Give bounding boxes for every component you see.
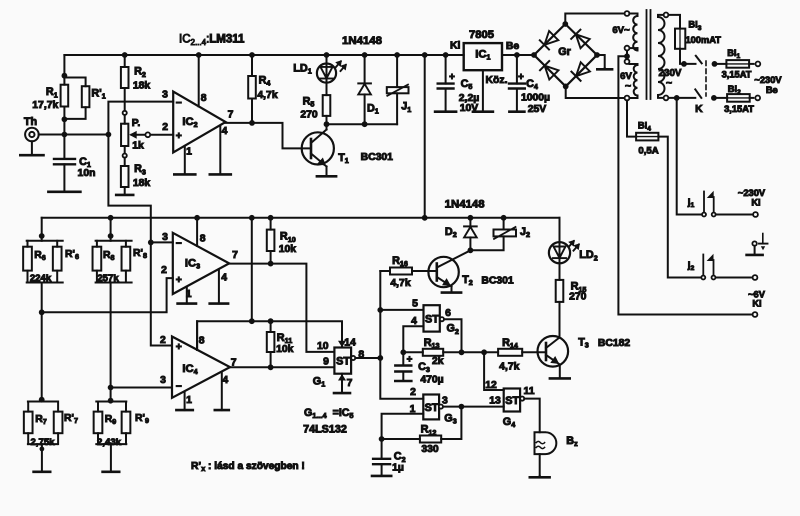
- node R1 top: [62, 73, 68, 79]
- svg-text:7: 7: [228, 110, 234, 121]
- wire R2 bottom to pot: [124, 88, 126, 111]
- wire IC2 output: [226, 123, 311, 148]
- node Th-sense: [106, 132, 112, 138]
- wire R5 node to D1 J1: [327, 123, 398, 125]
- svg-text:+: +: [407, 355, 413, 366]
- svg-text:3: 3: [162, 90, 168, 101]
- transistor T1 BC301: [302, 132, 334, 164]
- node mid rail J2: [501, 215, 507, 221]
- wire bridge top to transformer: [565, 14, 624, 25]
- svg-text:4,7k: 4,7k: [499, 362, 519, 373]
- svg-text:−: −: [176, 239, 182, 250]
- node rail-R2: [122, 52, 128, 58]
- node bridge top: [562, 21, 568, 27]
- svg-text:17,7k: 17,7k: [32, 100, 58, 111]
- wire primary bottom to K pole2: [668, 97, 695, 99]
- ground buzzer: [539, 476, 541, 477]
- ground R7: [41, 444, 43, 471]
- bridge rectifier Gr: [534, 24, 597, 86]
- svg-text:7: 7: [347, 378, 353, 389]
- node R4 output: [249, 120, 255, 126]
- resistor pair R6 R'6: [27, 240, 63, 242]
- op-amp IC4 LM311: [172, 337, 230, 398]
- node R11 bottom: [268, 364, 274, 370]
- svg-text:−: −: [176, 381, 182, 392]
- transistor T2 BC301: [428, 257, 458, 287]
- node pole2-Bi2: [711, 95, 717, 101]
- svg-text:1000µ: 1000µ: [521, 93, 550, 104]
- node R14 left: [481, 349, 487, 355]
- transformer secondary winding 6V lower: [625, 59, 630, 64]
- svg-text:BC301: BC301: [481, 275, 514, 286]
- ground T3 emitter: [550, 377, 570, 380]
- contact K pole2 arm: [695, 89, 701, 98]
- ground IC3 pin4: [218, 269, 220, 303]
- svg-text:4,7k: 4,7k: [257, 90, 277, 101]
- bridge diode top-left: [544, 31, 558, 45]
- svg-text:10k: 10k: [279, 244, 297, 255]
- wire rail to R1 top: [63, 55, 65, 76]
- wire G2 pin4: [403, 326, 423, 352]
- gate G4 output: [520, 397, 524, 401]
- node R5-T1 collector: [324, 121, 330, 127]
- wire G3 out to R12: [441, 407, 461, 439]
- svg-text:1N4148: 1N4148: [445, 199, 485, 211]
- resistor R3: [124, 158, 126, 166]
- svg-text:ST: ST: [336, 356, 350, 368]
- node mid rail R10: [268, 215, 274, 221]
- wire G3 pin1: [382, 414, 424, 439]
- wire top rail right of IC1: [502, 54, 534, 56]
- wire IC3 pin3: [151, 241, 173, 243]
- svg-text:3: 3: [160, 375, 166, 386]
- wire top rail to mid rail: [424, 55, 426, 218]
- resistor R12: [420, 436, 441, 443]
- transformer primary winding 230V: [664, 13, 669, 18]
- resistor pair R9 R'9: [108, 398, 114, 404]
- wire IC5 supply rail: [197, 321, 342, 350]
- ground IC4 pin4: [221, 372, 223, 410]
- node R8-R9 divider: [108, 385, 114, 391]
- terminal 6V out lower: [753, 312, 758, 317]
- fuse Bi2 3,15AT: [716, 97, 727, 99]
- svg-text:12: 12: [485, 380, 497, 391]
- gate G1 74LS132: [334, 348, 351, 374]
- node R13 left: [400, 349, 406, 355]
- svg-text:18k: 18k: [133, 178, 151, 189]
- relay coil J2: [503, 218, 505, 230]
- wire G1 pin7 ground arrow: [341, 374, 343, 393]
- svg-text:6: 6: [445, 308, 451, 319]
- svg-text:8: 8: [201, 93, 207, 104]
- svg-text:Be: Be: [506, 41, 520, 52]
- svg-text:BC301: BC301: [361, 152, 394, 163]
- svg-text:K: K: [695, 104, 703, 115]
- wire R6 bottom: [41, 283, 43, 402]
- svg-text:1: 1: [186, 395, 192, 406]
- svg-text:13: 13: [489, 396, 501, 407]
- gate G2 output: [440, 317, 444, 321]
- svg-text:+: +: [176, 131, 182, 142]
- ground IC2 pin4: [219, 126, 221, 174]
- node D1 bottom: [362, 121, 368, 127]
- svg-text:7: 7: [232, 250, 238, 261]
- resistor R11: [268, 318, 274, 324]
- terminal earth: [752, 241, 756, 245]
- wire j2 to terminal: [716, 277, 753, 279]
- svg-text:2: 2: [161, 265, 167, 276]
- wire rail to LD2: [559, 218, 561, 242]
- gate G3: [423, 395, 439, 420]
- svg-text:ST: ST: [505, 395, 519, 407]
- wire G3 out to G4 pin13: [461, 406, 503, 408]
- potentiometer P: [123, 111, 127, 115]
- node IC3 pin8 rail: [194, 215, 200, 221]
- node rail-C4: [514, 52, 520, 58]
- resistor pair R8 R'8: [96, 240, 132, 242]
- wire divider to IC4 pin3: [111, 387, 172, 389]
- svg-text:2: 2: [410, 387, 416, 398]
- connector Th input jack: [25, 128, 39, 142]
- svg-text:7805: 7805: [469, 29, 494, 41]
- resistor R13: [403, 351, 423, 353]
- svg-text:Köz.: Köz.: [486, 75, 508, 86]
- node G3 out: [459, 404, 465, 410]
- svg-text:11: 11: [524, 386, 535, 397]
- svg-text:25V: 25V: [528, 104, 547, 115]
- node C2 top: [379, 436, 385, 442]
- svg-text:6V~: 6V~: [612, 25, 630, 36]
- ground IC2 pin1: [184, 146, 186, 175]
- ground T2 emitter: [442, 291, 461, 294]
- svg-text:~230V: ~230V: [754, 75, 782, 85]
- wire IC4 output: [230, 366, 334, 368]
- svg-text:4: 4: [221, 272, 227, 283]
- capacitor C2: [381, 439, 383, 459]
- svg-text:1N4148: 1N4148: [342, 35, 382, 47]
- resistor R'1: [64, 78, 85, 87]
- ground C2: [381, 464, 383, 476]
- wire R13 to R14: [443, 351, 498, 353]
- node G1 out: [377, 355, 383, 361]
- wire Bi4 to j2: [658, 137, 701, 278]
- capacitor C3: [402, 352, 404, 365]
- LED LD2: [549, 242, 570, 263]
- svg-text:1: 1: [410, 404, 416, 415]
- svg-text:270: 270: [569, 291, 587, 302]
- ground C1: [48, 191, 80, 194]
- wire bridge right to ground: [597, 55, 605, 68]
- svg-text:1k: 1k: [132, 140, 144, 151]
- resistor R14: [498, 349, 522, 356]
- ground bridge right: [604, 68, 606, 69]
- svg-text:100mAT: 100mAT: [685, 35, 721, 45]
- bridge diode bottom-left: [545, 66, 559, 80]
- bridge diode bottom-right: [576, 62, 590, 76]
- wire pot wiper to IC2 pin2: [132, 134, 174, 136]
- node rail-C5: [443, 52, 449, 58]
- resistor pair R8 R'8 top stub: [110, 218, 112, 241]
- svg-text:14: 14: [344, 337, 356, 348]
- svg-text:270: 270: [300, 109, 318, 120]
- svg-text:−: −: [176, 98, 182, 109]
- node R1 bottom: [62, 116, 68, 122]
- link K contacts dashed: [705, 61, 707, 96]
- svg-text:Ki: Ki: [751, 198, 760, 208]
- node K pole1: [681, 61, 687, 67]
- wire winding to Bi4: [627, 100, 636, 136]
- svg-text:18k: 18k: [133, 81, 151, 92]
- svg-text:2,43k: 2,43k: [97, 437, 122, 448]
- resistor R16: [380, 270, 390, 272]
- wire Bi3 to K contact: [680, 49, 696, 64]
- svg-text:BC182: BC182: [598, 338, 631, 349]
- svg-text:Th: Th: [24, 116, 37, 128]
- buzzer Bz: [535, 432, 557, 454]
- ground T1 emitter: [326, 175, 328, 178]
- earth symbol: [762, 234, 764, 244]
- svg-text:4: 4: [222, 126, 228, 137]
- terminal 6V Ki: [753, 275, 758, 280]
- node mid rail R8: [108, 215, 114, 221]
- resistor pair R6 R'6 top stub: [41, 218, 43, 241]
- transistor T3 BC182: [538, 336, 569, 367]
- node IC5 rail: [249, 318, 255, 324]
- svg-text:+: +: [518, 72, 524, 83]
- node bridge left: [531, 52, 537, 58]
- node rail-J1: [394, 52, 400, 58]
- op-amp IC3 LM311: [173, 233, 229, 294]
- wire Th node: [39, 134, 109, 136]
- wire IC1 ground pin: [482, 70, 484, 111]
- svg-text:Gr: Gr: [558, 46, 571, 58]
- ground C5: [435, 110, 456, 113]
- svg-text:R’x : lásd a szövegben !: R’x : lásd a szövegben !: [191, 461, 305, 473]
- svg-text:10n: 10n: [78, 168, 96, 179]
- diode D2 1N4148: [469, 218, 471, 227]
- relay coil J1: [396, 55, 398, 87]
- svg-text:4,7k: 4,7k: [390, 278, 410, 289]
- node R13 right: [459, 349, 465, 355]
- wire mid supply rail: [42, 217, 560, 219]
- wire center tap to 6V output: [618, 56, 752, 314]
- svg-text:IC2...4:LM311: IC2...4:LM311: [179, 34, 245, 47]
- wire buzzer to ground: [539, 454, 541, 476]
- terminal 230V Ki: [753, 212, 758, 217]
- svg-text:470µ: 470µ: [420, 375, 443, 386]
- wire IC2 pin3 input: [108, 102, 173, 346]
- capacitor C4: [516, 55, 518, 84]
- ground IC3 pin1: [186, 287, 188, 304]
- svg-text:Be: Be: [766, 85, 778, 95]
- node sense to IC3 pin3: [148, 240, 154, 246]
- wire bridge bottom to transformer: [566, 86, 625, 98]
- wire j1 to terminal: [716, 214, 753, 216]
- svg-text:ST: ST: [425, 402, 439, 414]
- LED LD1: [326, 55, 328, 64]
- node R6-R7 divider: [39, 309, 45, 315]
- connector j2: [701, 276, 705, 280]
- fuse Bi4 0,5A: [636, 133, 658, 141]
- gate G1 output: [351, 356, 355, 360]
- gate G4: [504, 389, 520, 412]
- svg-text:9: 9: [323, 356, 329, 367]
- wire IC2 pin8 to rail: [198, 55, 200, 107]
- pin 8 label IC5 rail arrow into G1 pin14: [338, 341, 346, 348]
- svg-text:8: 8: [200, 234, 206, 245]
- svg-text:330: 330: [421, 444, 439, 455]
- ground Th: [31, 141, 33, 155]
- svg-text:2: 2: [162, 122, 168, 133]
- node rail-D1: [362, 52, 368, 58]
- node mid rail vert: [249, 215, 255, 221]
- diode D1 1N4148: [364, 55, 366, 83]
- svg-text:+: +: [449, 72, 455, 83]
- ground IC1: [473, 110, 493, 113]
- resistor R15: [559, 263, 561, 280]
- wire +5V top rail: [64, 54, 463, 56]
- resistor R4: [251, 55, 253, 76]
- svg-text:4: 4: [222, 375, 228, 386]
- op-amp IC2 LM311: [173, 92, 225, 153]
- node pin8 rail: [196, 52, 202, 58]
- node pole1-Bi1: [712, 61, 718, 67]
- gate G3 output: [439, 405, 443, 409]
- node mid rail D2: [468, 215, 474, 221]
- svg-text:0,5A: 0,5A: [638, 145, 658, 156]
- resistor R10: [270, 218, 272, 230]
- node Th-C1: [62, 132, 68, 138]
- svg-text:~: ~: [625, 81, 631, 92]
- wire to G2 pin5: [380, 309, 423, 311]
- svg-text:3: 3: [162, 232, 168, 243]
- svg-text:257k: 257k: [97, 273, 119, 284]
- wire R16 node vertical: [380, 271, 423, 399]
- node bridge right: [594, 52, 600, 58]
- bridge diode top-right: [576, 34, 590, 48]
- transformer core: [646, 10, 648, 99]
- ground C4: [509, 110, 524, 113]
- svg-text:~: ~: [666, 78, 672, 89]
- connector j1: [702, 213, 706, 217]
- svg-text:10: 10: [317, 341, 329, 352]
- wire IC4 pin8: [196, 321, 198, 350]
- gate G2: [424, 305, 440, 331]
- svg-text:+: +: [176, 275, 182, 286]
- svg-text:1: 1: [186, 147, 192, 158]
- node R10 bottom: [268, 261, 274, 267]
- node primary bottom junction: [674, 95, 680, 101]
- node pin5 branch: [377, 307, 383, 313]
- ground C3: [402, 372, 404, 382]
- ground G1 pin7: [334, 392, 350, 395]
- node bottom: [422, 215, 428, 221]
- wire divider to IC3 pin2: [42, 278, 173, 312]
- svg-text:3,15AT: 3,15AT: [722, 70, 752, 80]
- svg-text:~230V: ~230V: [738, 188, 766, 198]
- svg-text:ST: ST: [425, 313, 439, 325]
- svg-text:Ki: Ki: [752, 298, 761, 308]
- svg-text:10k: 10k: [276, 344, 294, 355]
- svg-text:+: +: [176, 342, 182, 353]
- svg-text:74LS132: 74LS132: [303, 423, 347, 435]
- contact K pole1 arm: [696, 56, 702, 64]
- fuse Bi1 3,15AT: [717, 63, 727, 65]
- svg-text:8: 8: [199, 336, 205, 347]
- ground R9: [110, 444, 112, 471]
- node rail-LD1: [324, 52, 330, 58]
- node rail-R4: [249, 52, 255, 58]
- resistor pair R7 R'7: [39, 397, 45, 403]
- svg-text:1µ: 1µ: [392, 462, 404, 473]
- node bridge bottom: [563, 84, 569, 90]
- capacitor C5: [445, 55, 447, 84]
- wire IC3 output: [229, 264, 334, 352]
- resistor R1: [61, 85, 69, 107]
- ground IC4 pin1: [184, 392, 186, 410]
- wire K to j1: [677, 98, 702, 215]
- svg-text:P.: P.: [132, 118, 141, 129]
- wire IC3 pin8: [196, 218, 198, 246]
- wire R8 bottom: [110, 283, 112, 402]
- node top: [422, 52, 428, 58]
- wire primary top to Bi3: [668, 15, 680, 29]
- resistor R2: [124, 55, 126, 67]
- wire to G4 pin12: [484, 352, 504, 390]
- wire supply drop to IC5 rail: [251, 218, 253, 321]
- regulator IC1 7805: [464, 43, 502, 70]
- resistor R5: [326, 83, 328, 95]
- svg-text:5: 5: [412, 299, 418, 310]
- svg-text:Ki: Ki: [450, 41, 461, 52]
- svg-text:2: 2: [160, 335, 166, 346]
- node D2 bottom: [468, 247, 474, 253]
- svg-text:3,15AT: 3,15AT: [724, 104, 754, 114]
- transformer center tap: [626, 51, 628, 60]
- fuse Bi3 100mAT: [675, 29, 685, 49]
- transformer secondary winding 6V~ upper: [625, 11, 630, 16]
- capacitor C1: [63, 135, 65, 159]
- ground R3: [124, 187, 126, 195]
- svg-text:2k: 2k: [432, 356, 444, 367]
